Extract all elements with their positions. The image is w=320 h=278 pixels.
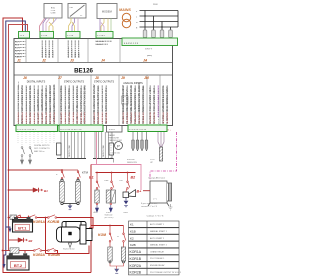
svg-text:J2: J2 [42, 59, 46, 63]
svg-text:KOR1B: KOR1B [48, 220, 60, 224]
svg-text:24VDC LOAD: 24VDC LOAD [68, 145, 71, 157]
svg-text:1 2 3 4 5 6 7 8 9 10: 1 2 3 4 5 6 7 8 9 10 [129, 129, 147, 131]
svg-text:1 2 3 4 5 6 7 8 9 10 1: 1 2 3 4 5 6 7 8 9 10 1 [17, 129, 37, 131]
svg-text:K2B: K2B [130, 243, 136, 247]
svg-text:KTM: KTM [82, 170, 89, 174]
svg-text:Charge Alternator: Charge Alternator [148, 177, 165, 180]
svg-text:Contact # / G # S: Contact # / G # S [147, 215, 164, 218]
svg-text:BT.1: BT.1 [18, 226, 27, 231]
svg-text:J1: J1 [17, 59, 21, 63]
svg-text:AUTO START 1: AUTO START 1 [150, 223, 165, 226]
svg-text:J8: J8 [95, 76, 99, 80]
svg-text:KG: KG [120, 180, 123, 182]
svg-text:24VDC LOAD: 24VDC LOAD [102, 145, 105, 157]
svg-text:J6: J6 [23, 76, 27, 80]
svg-text:KOR2B: KOR2B [130, 271, 142, 275]
svg-text:KOR2A: KOR2A [130, 264, 142, 268]
svg-text:B1: B1 [89, 176, 94, 180]
svg-text:G R Y T: G R Y T [145, 49, 153, 51]
svg-text:K2: K2 [130, 236, 134, 240]
svg-text:ENGINE: ENGINE [127, 159, 135, 161]
svg-text:MODEM: MODEM [102, 9, 112, 13]
svg-text:1 2 3 4: 1 2 3 4 [41, 35, 48, 37]
svg-text:DIGITAL INPUTS: DIGITAL INPUTS [34, 144, 50, 147]
svg-text:0-XXX: 0-XXX [109, 129, 115, 131]
svg-text:P: P [117, 143, 120, 148]
svg-text:1 2 3 4: 1 2 3 4 [67, 35, 74, 37]
svg-text:MAINS: MAINS [119, 8, 131, 12]
svg-text:BT.2: BT.2 [14, 263, 23, 268]
svg-text:1 2 3 4 5: 1 2 3 4 5 [97, 35, 106, 37]
svg-text:DIGITAL INPUTS: DIGITAL INPUTS [27, 81, 46, 84]
svg-text:B2: B2 [29, 239, 33, 243]
svg-text:STATIC OUTPUTS: STATIC OUTPUTS [64, 81, 85, 84]
svg-text:AUX: AUX [94, 211, 99, 214]
svg-text:JM: JM [144, 76, 149, 80]
svg-text:MANUAL START 2: MANUAL START 2 [150, 244, 168, 247]
svg-text:KOR1B: KOR1B [130, 257, 142, 261]
svg-text:If you use the -W-,: If you use the -W-, [141, 202, 158, 205]
svg-text:4-20 mA: 4-20 mA [112, 152, 120, 155]
svg-text:11 12 13 14 15 16 17 18: 11 12 13 14 15 16 17 18 [60, 129, 82, 131]
svg-text:BE126: BE126 [74, 68, 93, 75]
svg-text:(ECU/G2): (ECU/G2) [105, 217, 114, 219]
svg-text:KOR1A: KOR1A [33, 220, 45, 224]
svg-text:(wire): (wire) [147, 55, 152, 57]
svg-text:PILOT RELAY 1: PILOT RELAY 1 [150, 257, 165, 260]
svg-text:WATER: WATER [108, 134, 116, 137]
svg-text:CAN 6: CAN 6 [16, 56, 23, 59]
svg-text:CAN L: CAN L [78, 52, 81, 58]
svg-text:Horn: Horn [124, 212, 128, 214]
svg-text:MANUAL START 1: MANUAL START 1 [150, 230, 168, 233]
svg-text:PICK: PICK [150, 159, 155, 161]
svg-text:J9: J9 [121, 76, 125, 80]
svg-text:( ? ): ( ? ) [153, 199, 157, 201]
svg-text:KOR2A: KOR2A [33, 253, 45, 257]
svg-text:PILOT RELAY OUTPUT 24 V DC S: PILOT RELAY OUTPUT 24 V DC S [150, 271, 181, 274]
svg-text:SENSORS: SENSORS [127, 162, 137, 164]
svg-text:KFS: KFS [105, 180, 110, 182]
svg-text:J3: J3 [70, 59, 74, 63]
svg-text:B1: B1 [44, 189, 48, 193]
svg-text:KOR1A: KOR1A [130, 250, 142, 254]
svg-text:J4: J4 [101, 59, 105, 63]
svg-text:4 5 4 5 1 1 2 3: 4 5 4 5 1 1 2 3 [124, 43, 139, 45]
svg-text:connect # 7 to # 8: connect # 7 to # 8 [141, 205, 158, 208]
svg-text:B2: B2 [131, 176, 136, 180]
svg-text:CRANK RELAY: CRANK RELAY [150, 250, 165, 253]
svg-text:DRY CONTACTS: DRY CONTACTS [34, 147, 50, 150]
svg-text:STATIC OUTPUTS: STATIC OUTPUTS [94, 81, 115, 84]
svg-text:ENGINE RELAY: ENGINE RELAY [150, 264, 165, 267]
svg-text:230V: 230V [153, 4, 158, 6]
svg-text:KOM: KOM [98, 233, 106, 237]
svg-text:Starter Motor: Starter Motor [63, 247, 75, 250]
svg-text:AUTO START 2: AUTO START 2 [150, 237, 165, 240]
svg-text:K1B: K1B [130, 230, 136, 234]
svg-text:COM: COM [51, 13, 56, 15]
svg-text:MAX 100 m: MAX 100 m [34, 150, 45, 153]
svg-text:K1: K1 [130, 223, 134, 227]
svg-text:JA: JA [143, 59, 148, 63]
